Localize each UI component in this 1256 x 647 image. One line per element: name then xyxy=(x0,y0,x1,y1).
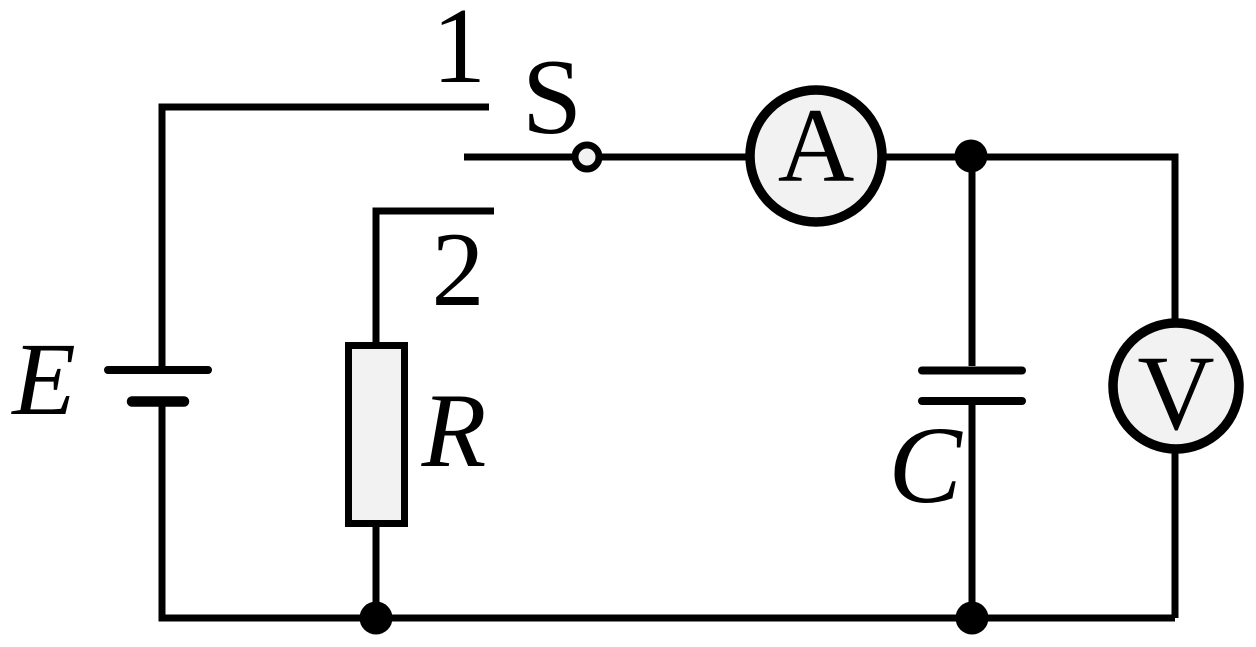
svg-text:1: 1 xyxy=(432,0,486,106)
svg-text:V: V xyxy=(1137,335,1214,453)
svg-text:A: A xyxy=(778,87,855,204)
svg-text:C: C xyxy=(888,404,963,526)
svg-text:2: 2 xyxy=(432,211,485,328)
svg-text:E: E xyxy=(10,322,76,437)
svg-text:R: R xyxy=(421,372,487,489)
svg-text:S: S xyxy=(522,38,582,157)
